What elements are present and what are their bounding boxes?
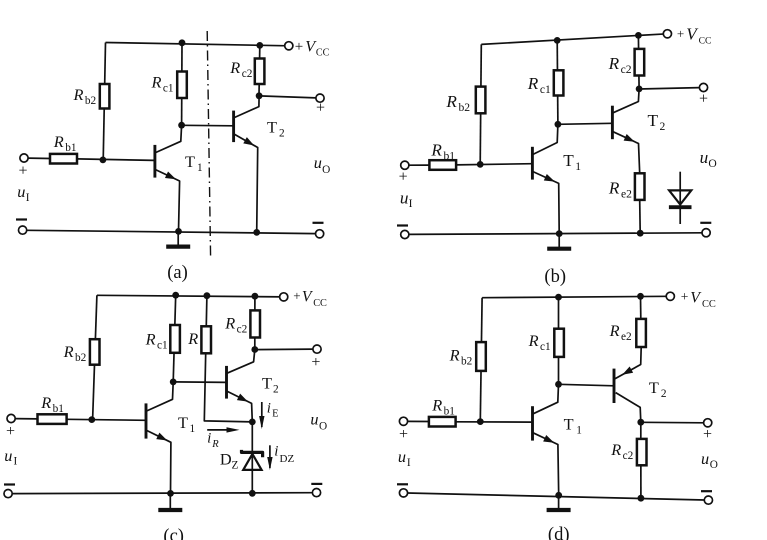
svg-text:T: T (267, 117, 277, 136)
svg-text:u: u (398, 447, 406, 466)
svg-text:R: R (187, 329, 198, 348)
svg-text:T: T (564, 414, 574, 433)
svg-text:R: R (527, 74, 539, 93)
svg-text:(d): (d) (548, 525, 570, 540)
svg-text:b1: b1 (444, 405, 455, 417)
svg-text:u: u (400, 188, 409, 207)
svg-text:R: R (53, 132, 64, 151)
svg-text:R: R (40, 393, 51, 412)
svg-text:+: + (6, 423, 15, 440)
svg-text:b2: b2 (75, 352, 87, 364)
svg-text:R: R (229, 58, 240, 77)
svg-text:T: T (185, 152, 195, 171)
svg-text:DZ: DZ (280, 453, 295, 465)
svg-text:+: + (399, 169, 408, 186)
svg-text:+: + (316, 100, 325, 117)
svg-text:R: R (151, 73, 162, 92)
svg-text:u: u (700, 148, 709, 167)
svg-text:D: D (220, 449, 232, 468)
svg-text:Z: Z (232, 459, 239, 471)
svg-text:(c): (c) (163, 527, 184, 540)
svg-text:R: R (449, 346, 460, 365)
svg-text:+: + (681, 289, 689, 304)
svg-text:R: R (211, 439, 219, 450)
svg-text:u: u (4, 446, 12, 465)
svg-text:R: R (528, 331, 539, 350)
svg-text:e2: e2 (621, 188, 632, 201)
svg-text:i: i (207, 431, 211, 447)
svg-text:CC: CC (313, 298, 327, 309)
svg-text:c2: c2 (242, 68, 253, 80)
svg-text:u: u (17, 182, 25, 201)
svg-text:c1: c1 (163, 83, 174, 95)
svg-text:e2: e2 (621, 331, 632, 343)
svg-text:T: T (178, 413, 188, 432)
svg-text:c1: c1 (540, 83, 551, 96)
svg-text:1: 1 (197, 162, 203, 174)
svg-text:+: + (703, 426, 712, 443)
svg-text:R: R (73, 85, 84, 104)
svg-text:c2: c2 (237, 324, 248, 336)
svg-text:+: + (677, 26, 684, 41)
svg-text:u: u (310, 410, 318, 429)
svg-text:b1: b1 (65, 142, 76, 154)
svg-text:2: 2 (660, 120, 666, 133)
svg-text:(b): (b) (544, 267, 566, 287)
svg-text:c2: c2 (623, 450, 634, 462)
svg-text:u: u (314, 153, 322, 172)
svg-text:R: R (608, 54, 620, 73)
svg-text:b2: b2 (458, 101, 470, 114)
svg-text:b2: b2 (85, 95, 97, 107)
svg-text:b1: b1 (53, 403, 64, 415)
svg-text:c1: c1 (540, 341, 551, 353)
svg-text:+: + (293, 288, 300, 303)
svg-text:T: T (563, 151, 574, 170)
svg-text:I: I (407, 457, 411, 469)
svg-text:T: T (648, 111, 659, 130)
svg-text:R: R (608, 179, 620, 198)
svg-text:c1: c1 (157, 340, 168, 352)
svg-text:b1: b1 (443, 150, 455, 163)
svg-text:+: + (295, 39, 303, 55)
svg-text:1: 1 (576, 424, 582, 436)
svg-text:R: R (445, 92, 457, 111)
svg-text:R: R (610, 440, 621, 459)
svg-text:+: + (699, 91, 708, 108)
svg-text:O: O (319, 420, 327, 432)
svg-text:CC: CC (702, 299, 716, 310)
svg-text:i: i (274, 444, 278, 460)
svg-text:+: + (18, 163, 27, 180)
svg-text:E: E (272, 408, 278, 419)
svg-text:2: 2 (273, 383, 279, 395)
svg-text:I: I (14, 456, 18, 468)
svg-text:O: O (322, 164, 330, 176)
svg-text:I: I (409, 197, 413, 210)
svg-text:R: R (431, 395, 442, 414)
svg-text:1: 1 (575, 160, 581, 173)
svg-text:b2: b2 (461, 356, 473, 368)
svg-text:T: T (649, 378, 659, 397)
svg-text:I: I (26, 192, 30, 204)
svg-text:O: O (708, 157, 716, 170)
svg-text:R: R (63, 342, 74, 361)
svg-text:T: T (262, 373, 272, 392)
svg-text:R: R (430, 141, 442, 160)
svg-text:R: R (609, 321, 620, 340)
svg-text:c2: c2 (621, 63, 632, 76)
svg-text:2: 2 (661, 388, 667, 400)
svg-text:+: + (399, 426, 408, 443)
svg-text:R: R (224, 314, 235, 333)
svg-text:(a): (a) (167, 263, 188, 283)
svg-text:CC: CC (699, 35, 712, 46)
svg-text:CC: CC (316, 47, 330, 58)
svg-text:+: + (311, 354, 320, 371)
svg-text:2: 2 (279, 127, 285, 139)
svg-text:i: i (267, 400, 271, 416)
svg-text:R: R (145, 330, 156, 349)
svg-text:O: O (710, 459, 718, 471)
svg-text:1: 1 (190, 423, 196, 435)
svg-text:u: u (701, 449, 709, 468)
